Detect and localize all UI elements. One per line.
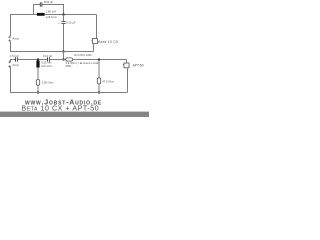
svg-text:10.0 Ohm 10W: 10.0 Ohm 10W: [74, 53, 93, 57]
wire capacitor C1 branch left: [34, 5, 41, 15]
terminal Amp1 plus: [8, 36, 11, 39]
svg-text:8.20 µF: 8.20 µF: [66, 21, 76, 25]
wire speaker return down: [93, 44, 95, 52]
wire Amp2+ up to mid rail: [11, 60, 16, 62]
capacitor C4 plates: [48, 57, 50, 61]
wire top rail down to speaker: [96, 15, 98, 39]
junction node top rail / C2: [63, 14, 65, 16]
capacitor C3 plates: [16, 57, 18, 61]
wire mid rail segment 1: [17, 59, 47, 61]
svg-text:3,90 Ohm: 3,90 Ohm: [42, 80, 55, 84]
svg-text:4.70 µF: 4.70 µF: [10, 54, 20, 58]
wire R1 to ground rail: [37, 85, 39, 92]
svg-text:APT-50: APT-50: [133, 63, 144, 67]
resistor R1 3.90 Ohm: [36, 80, 39, 86]
wire ground rail: [10, 92, 128, 94]
resistor R3 47.0 Ohm: [97, 78, 100, 84]
wire C2 down: [63, 24, 65, 52]
wire L2 to R1: [37, 68, 39, 80]
terminal Amp2 minus: [8, 65, 11, 68]
wire capacitor C1 branch right: [42, 5, 64, 15]
resistor R2 10.0 Ohm: [66, 58, 73, 61]
junction node shunt R3: [98, 59, 100, 61]
wire mid rail segment 3: [73, 59, 127, 61]
wire Amp1+ up to top rail: [10, 15, 12, 37]
wire return up to Amp1 minus: [10, 42, 12, 52]
inductor L2 0.56 mH: [36, 61, 39, 68]
svg-text:0.56 mH: 0.56 mH: [41, 60, 51, 64]
wire APT-50 down: [127, 68, 129, 93]
junction node woofer return: [63, 51, 65, 53]
inductor L1 1.60 mH: [37, 13, 45, 16]
wire C2 branch to mid rail: [63, 52, 65, 60]
svg-text:Luft 1mm: Luft 1mm: [41, 64, 53, 68]
speaker Beta 10 CX: [93, 39, 98, 44]
junction node mid rail: [63, 59, 65, 61]
wire R3 to ground rail: [98, 84, 100, 93]
svg-text:47.0 Ohm: 47.0 Ohm: [102, 79, 115, 83]
wire mid rail segment 2: [49, 59, 65, 61]
svg-text:Beta 10 CX: Beta 10 CX: [98, 40, 119, 44]
wire top rail left: [10, 14, 37, 16]
wire top rail to C2: [63, 15, 65, 22]
junction node shunt L2: [37, 59, 39, 61]
junction node ground L2 branch: [37, 92, 39, 94]
junction node ground R3 branch: [98, 92, 100, 94]
speaker APT-50: [124, 63, 129, 68]
svg-text:Amp: Amp: [12, 63, 19, 67]
svg-text:1.60 mH: 1.60 mH: [46, 10, 56, 14]
wire shunt down to L2: [37, 60, 39, 61]
svg-text:Luft 1mm: Luft 1mm: [46, 15, 58, 19]
capacitor C2 plates: [61, 22, 65, 24]
svg-text:Beta 10 CX + APT-50: Beta 10 CX + APT-50: [22, 106, 100, 113]
wire top rail right: [45, 14, 97, 16]
title bar: [0, 112, 149, 117]
wire ground rail up to Amp2 minus: [10, 67, 12, 93]
svg-text:8.82 µF: 8.82 µF: [44, 0, 54, 4]
svg-text:15.0 µF: 15.0 µF: [43, 54, 53, 58]
svg-text:Amp: Amp: [12, 37, 19, 41]
terminal Amp2 plus: [8, 61, 11, 64]
wire woofer return rail: [10, 51, 94, 53]
capacitor C1 plates: [40, 2, 42, 6]
terminal Amp1 minus: [8, 39, 11, 42]
svg-text:20W: 20W: [66, 64, 72, 68]
wire mid rail down to APT-50: [126, 60, 128, 64]
wire shunt down to R3: [98, 60, 100, 78]
